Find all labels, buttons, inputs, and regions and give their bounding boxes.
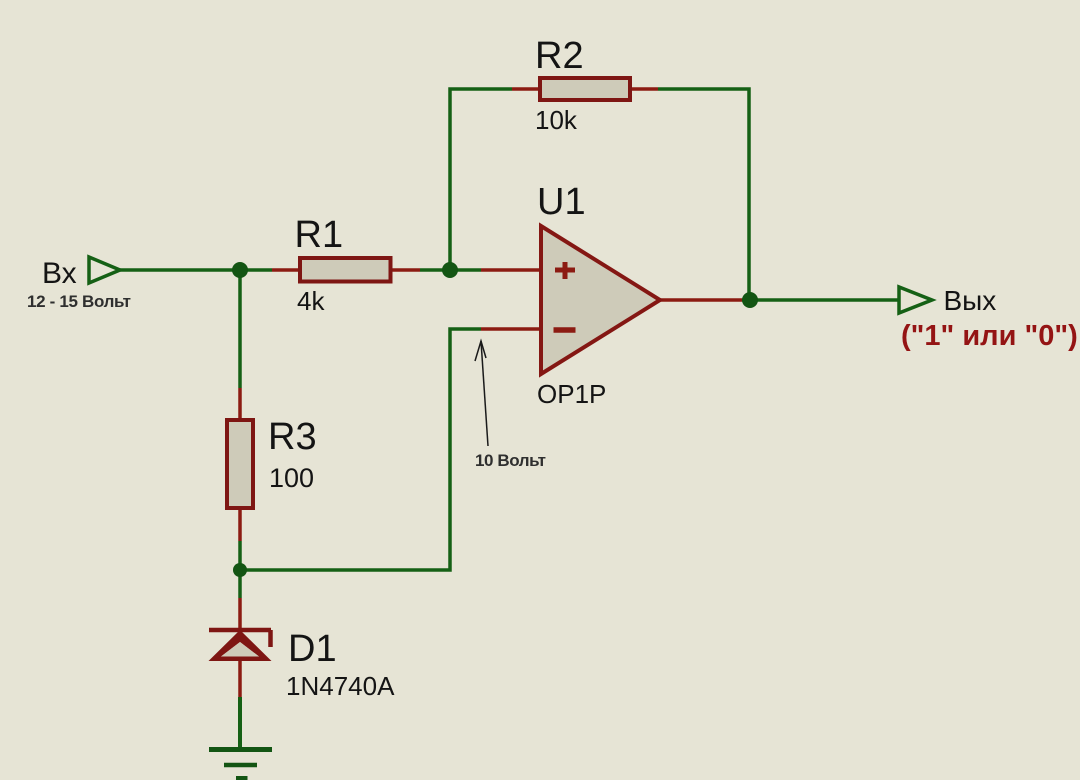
svg-text:R2: R2 (535, 35, 584, 77)
svg-text:Вх: Вх (42, 257, 77, 290)
wire D1 to ground (238, 659, 242, 697)
op-amp plus sign (555, 268, 575, 273)
svg-text:R3: R3 (268, 416, 317, 458)
resistor R2 (540, 78, 630, 100)
svg-text:10k: 10k (535, 105, 578, 135)
annotation arrow 10 Volt (475, 341, 488, 446)
wire R3 to node D (238, 510, 242, 541)
wire op-amp output to node C (660, 298, 742, 302)
svg-text:U1: U1 (537, 181, 586, 223)
wire feedback right vertical (658, 89, 749, 300)
wire node B to op-amp plus input (450, 268, 481, 272)
svg-text:R1: R1 (295, 214, 344, 256)
svg-text:12 - 15 Вольт: 12 - 15 Вольт (27, 292, 131, 311)
wire node C to output terminal (742, 298, 899, 302)
svg-text:Вых: Вых (944, 285, 997, 316)
wire node A to R1 pin (272, 268, 298, 272)
node D (233, 563, 247, 577)
ground (209, 750, 272, 779)
node C (742, 292, 758, 308)
wire input to node A (120, 268, 272, 272)
wire R1 pin to node B (392, 268, 420, 272)
wire R2 to feedback right (632, 87, 658, 91)
zener diode D1 (209, 630, 272, 661)
svg-text:4k: 4k (297, 286, 325, 316)
svg-text:("1" или "0"): ("1" или "0") (901, 320, 1078, 352)
wire node D to D1 (238, 570, 242, 598)
resistor R3 (227, 420, 253, 508)
input terminal Bx (89, 257, 120, 283)
svg-text:D1: D1 (288, 628, 337, 670)
node B (442, 262, 458, 278)
op-amp U1 (541, 226, 660, 374)
output terminal (899, 287, 932, 313)
wire minus vertical down to node D (240, 329, 481, 570)
svg-text:10 Вольт: 10 Вольт (475, 451, 546, 470)
svg-text:OP1P: OP1P (537, 379, 606, 409)
svg-text:1N4740A: 1N4740A (286, 671, 395, 701)
op-amp minus sign (554, 327, 576, 333)
wire node A down to R3 (238, 270, 242, 388)
wire op-amp minus input (481, 327, 541, 331)
node A (232, 262, 248, 278)
wire feedback left vertical (450, 89, 512, 270)
svg-text:100: 100 (269, 463, 314, 493)
resistor R1 (300, 258, 391, 282)
